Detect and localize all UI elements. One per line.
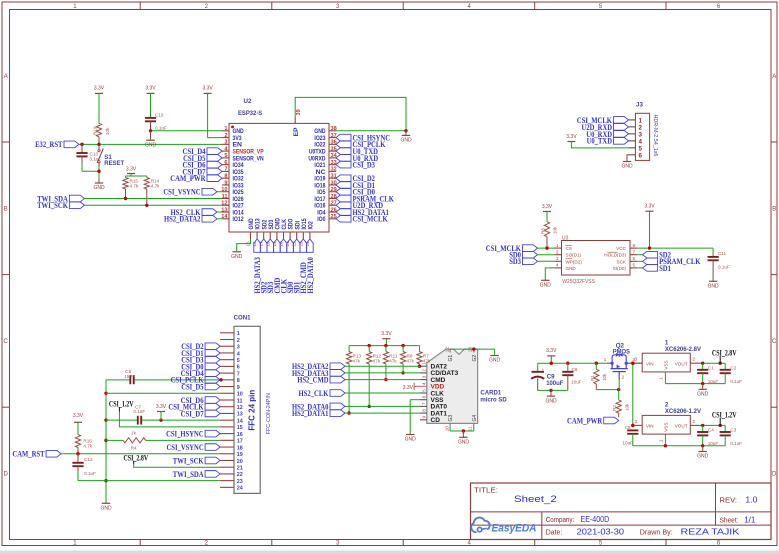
svg-text:3.3V: 3.3V [381, 331, 392, 337]
wire R8 to line [401, 364, 404, 375]
net flag U0_RXD at J3 pin 3 [586, 129, 628, 139]
capacitor C4 10uF [697, 425, 718, 446]
svg-text:CSI_MCLK: CSI_MCLK [353, 214, 388, 224]
wire pin38 GND [336, 129, 408, 132]
svg-text:2: 2 [639, 124, 643, 131]
svg-text:CON1: CON1 [234, 315, 251, 322]
svg-text:5: 5 [224, 153, 227, 159]
wire EN net [79, 143, 222, 146]
title block [471, 483, 772, 540]
svg-text:GND: GND [621, 164, 633, 170]
svg-text:REZA TAJIK: REZA TAJIK [681, 528, 741, 537]
wire HS2_CMD to CARD1 [345, 379, 420, 381]
svg-text:3.3V: 3.3V [403, 385, 414, 391]
svg-text:C: C [772, 339, 777, 345]
svg-text:0.1uF: 0.1uF [718, 265, 730, 270]
svg-text:R1: R1 [590, 375, 595, 381]
capacitor C7 0.1uF [133, 404, 145, 424]
svg-text:G2: G2 [472, 355, 478, 362]
svg-text:IO0: IO0 [317, 216, 325, 223]
wire HS2_CLK to CARD1 [345, 392, 420, 394]
svg-text:TWI_SCK: TWI_SCK [37, 200, 68, 210]
capacitor C2 0.1uF [720, 363, 743, 384]
svg-text:C12: C12 [84, 457, 93, 462]
resistor R13 47k [347, 346, 362, 364]
svg-text:6: 6 [421, 395, 426, 398]
wire HS2_DATA1 to CARD1 [345, 412, 420, 414]
svg-text:1: 1 [224, 126, 227, 132]
svg-text:3: 3 [635, 357, 638, 362]
net flag CSI_D3 [336, 160, 375, 170]
ground right of CARD1 [489, 356, 501, 364]
svg-text:EP: EP [293, 127, 300, 137]
svg-text:47k: 47k [373, 359, 381, 364]
wire pin1 GND [149, 129, 222, 132]
wire C12 to rail and pin23 [78, 480, 220, 482]
svg-text:IO12: IO12 [233, 216, 244, 223]
net flag TWI_SDA [37, 193, 84, 203]
svg-text:CAM_PWR: CAM_PWR [170, 173, 206, 183]
wire S1/C13 to ground [82, 167, 101, 183]
net flag CSI_D0 [336, 187, 375, 197]
svg-text:GND: GND [697, 392, 709, 398]
svg-text:CSI_2.8V: CSI_2.8V [124, 452, 149, 462]
capacitor C10 0.1uF [145, 93, 167, 130]
svg-text:EE-400D: EE-400D [581, 515, 610, 524]
ground below regulator 2 [697, 452, 709, 460]
U2 pins [221, 109, 337, 246]
svg-text:0.1uF: 0.1uF [84, 471, 96, 476]
power flag 3.3V to 3V3 pin [202, 86, 213, 94]
capacitor C8 10uF [562, 363, 582, 390]
wire CSI_1.2V to pin15 [119, 412, 220, 427]
svg-text:4.7k: 4.7k [83, 443, 92, 448]
svg-text:14: 14 [237, 418, 243, 424]
net flag HS2_CLK [299, 388, 346, 398]
net flag HS2_CMD below U2 [298, 239, 308, 294]
net flag CAM_PWR at IO32 [170, 173, 222, 183]
wire G1 G2 to ground [450, 347, 495, 355]
svg-text:VOUT: VOUT [675, 362, 688, 367]
svg-text:12: 12 [237, 405, 243, 411]
capacitor C1 10uF [697, 363, 718, 384]
net flag HS2_DATA0 [292, 401, 345, 411]
bottom grey strip [0, 551, 779, 554]
svg-text:HDR-M-2.54_1x6: HDR-M-2.54_1x6 [652, 115, 658, 157]
svg-text:C5: C5 [625, 425, 631, 430]
svg-text:3.3V: 3.3V [202, 86, 213, 92]
svg-text:1/1: 1/1 [744, 516, 756, 525]
net label CSI_2.8V at CON1 pin21 [124, 452, 149, 464]
net flag SD0 at U3 [509, 250, 537, 260]
svg-text:9: 9 [421, 416, 426, 419]
svg-text:13: 13 [221, 207, 227, 213]
svg-text:CSI_VSYNC: CSI_VSYNC [167, 442, 204, 452]
svg-text:2: 2 [421, 369, 426, 372]
capacitor C6 15PF [124, 369, 135, 384]
net flag PSRAM_CLK at U3 [637, 256, 701, 266]
net flag CAM_RST [12, 449, 61, 459]
svg-text:3.3V: 3.3V [145, 86, 156, 92]
svg-text:C11: C11 [718, 251, 727, 256]
svg-text:4: 4 [237, 351, 240, 357]
net flag HS2_DATA0 below U2 [305, 239, 315, 294]
svg-text:CARD1: CARD1 [480, 389, 501, 396]
svg-text:CAM_RST: CAM_RST [12, 449, 44, 459]
net flag CSI_D5 [183, 153, 222, 163]
svg-text:38: 38 [331, 126, 337, 132]
wire 3.3V to pin2 [208, 93, 222, 137]
transistor Q2 PMOS [604, 342, 636, 380]
svg-text:HS2_DATA0: HS2_DATA0 [305, 257, 315, 294]
net label CSI_1.2V [712, 410, 737, 426]
svg-text:GND: GND [405, 437, 417, 443]
EasyEDA logo [471, 518, 536, 535]
capacitor C11 0.1uF [708, 248, 730, 281]
svg-text:100uF: 100uF [546, 380, 563, 387]
svg-text:32: 32 [331, 167, 337, 173]
net flag CAM_PWR [567, 415, 619, 425]
svg-text:17: 17 [237, 439, 243, 445]
ground below S1 [93, 183, 105, 191]
svg-text:3.3V: 3.3V [644, 204, 655, 210]
wire TWI_SCK to IO27 [84, 204, 222, 207]
net flag E32_RST [35, 139, 79, 149]
power flag 3.3V above C10 [145, 86, 156, 94]
net flag CSI_D6 [183, 160, 223, 170]
svg-text:C8: C8 [572, 367, 578, 372]
svg-text:R4: R4 [131, 445, 137, 450]
wire 3.3V to R6 [546, 212, 548, 222]
svg-text:GND: GND [545, 398, 557, 404]
svg-text:CSI_1.2V: CSI_1.2V [109, 399, 134, 409]
net flag CSI_D5 at CON1 pin 9 [181, 381, 220, 391]
wire 3.3V to R19 [98, 93, 100, 123]
svg-text:3.3V: 3.3V [73, 413, 84, 419]
wire R13 to line [347, 364, 350, 415]
svg-text:FFC 24 pin: FFC 24 pin [247, 390, 256, 431]
svg-text:4: 4 [556, 263, 559, 268]
svg-text:1: 1 [237, 331, 240, 337]
svg-text:18: 18 [237, 445, 243, 451]
capacitor C12 0.1uF [72, 454, 96, 481]
ground below U3 [540, 280, 552, 288]
resistor R4 1k [123, 430, 146, 450]
svg-text:VSS: VSS [663, 360, 668, 369]
svg-text:16: 16 [237, 432, 243, 438]
svg-text:GND: GND [145, 142, 157, 148]
svg-text:13: 13 [237, 412, 243, 418]
net flag CSI_VSYNC at IO25 [163, 187, 222, 197]
net flag CSI_D1 [336, 180, 375, 190]
svg-text:SI(D0): SI(D0) [613, 266, 627, 271]
svg-text:ESP32-S: ESP32-S [238, 110, 262, 117]
wire HS2_DATA3 to CARD1 [345, 372, 420, 374]
wire VSS to ground [410, 400, 420, 435]
svg-text:Date:: Date: [546, 528, 563, 537]
power flag 3.3V at J3 pin5 [566, 134, 577, 142]
svg-text:4: 4 [639, 138, 643, 145]
svg-text:GND: GND [566, 266, 577, 271]
wire HS2_DATA0 to CARD1 [345, 405, 420, 407]
resistor R6 10k [541, 222, 558, 248]
svg-text:C10: C10 [155, 113, 164, 118]
net flag HS2_DATA1 [336, 207, 389, 217]
wire R11 to line [384, 364, 387, 381]
svg-text:0.1uF: 0.1uF [133, 409, 145, 414]
svg-text:3: 3 [639, 131, 643, 138]
svg-text:GND: GND [100, 506, 112, 512]
wire R7 to line [418, 364, 421, 368]
svg-text:PMOS: PMOS [613, 349, 630, 356]
svg-text:11: 11 [237, 398, 243, 404]
connector CON1 FFC 24 pin body [220, 315, 272, 494]
svg-text:1: 1 [639, 118, 643, 125]
svg-text:10: 10 [237, 392, 243, 398]
net flag HS2_DATA1 [292, 408, 345, 418]
svg-text:7: 7 [237, 371, 240, 377]
op-amp U2 ESP32-S module body [229, 98, 329, 232]
regulator U1 XC6206-2.8V [633, 339, 703, 380]
net label CSI_1.2V at CON1 pin15 [109, 399, 134, 412]
svg-text:CSI_2.8V: CSI_2.8V [712, 347, 737, 357]
net flag CSI_HSYNC [336, 132, 390, 142]
svg-text:RESET: RESET [104, 160, 124, 167]
svg-text:FFC-CON-24PIN: FFC-CON-24PIN [266, 393, 272, 434]
svg-text:8: 8 [421, 409, 426, 412]
svg-text:22: 22 [237, 472, 243, 478]
svg-text:0.1uF: 0.1uF [155, 126, 167, 131]
net flag U0_TXD at J3 pin 4 [587, 136, 629, 146]
svg-text:0.1uF: 0.1uF [730, 379, 742, 384]
svg-text:G1: G1 [448, 355, 454, 362]
svg-text:REV:: REV: [720, 496, 738, 505]
wire CSI_2.8V to pin21 [134, 464, 220, 467]
svg-text:19: 19 [237, 452, 243, 458]
svg-text:8: 8 [224, 173, 227, 179]
power flag 3.3V above R15 R14 [126, 167, 147, 177]
resistor R16 4.7k [75, 422, 92, 453]
wire CAM_RST to CON1 pin19 [61, 452, 220, 455]
net flag CSI_D0 at CON1 pin 6 [181, 361, 220, 371]
net flag SD0 below U2 [285, 239, 295, 294]
resistor R8 47k [401, 346, 415, 364]
net flag TWI_SCK at CON1 pin 20 [173, 455, 220, 465]
net flag CSI_MCLK [336, 214, 388, 224]
svg-text:U2: U2 [244, 98, 252, 105]
svg-text:5: 5 [633, 263, 636, 268]
net flag TWI_SDA at CON1 pin 22 [173, 469, 220, 479]
connector J3 HDR-M-2.54_1x6 [629, 102, 659, 161]
svg-text:G4: G4 [472, 415, 478, 422]
net flag HS2_DATA2 at IO12 [164, 214, 222, 224]
net flag CSI_D2 [336, 173, 375, 183]
net flag SD3 below U2 [265, 239, 275, 294]
wire Q2 drain node [631, 362, 642, 426]
svg-text:GND: GND [708, 284, 720, 290]
resistor R7 47k [417, 346, 431, 364]
net flag SD2 at U3 [637, 250, 671, 260]
wire SD3 [538, 260, 555, 262]
svg-text:U0_TXD: U0_TXD [587, 136, 612, 146]
svg-text:R19: R19 [93, 126, 98, 135]
svg-text:D: D [772, 472, 777, 478]
net flag U0_TXD [336, 146, 378, 156]
wire VOUT rail CSI_2.8V [631, 362, 725, 365]
svg-text:Sheet:: Sheet: [720, 516, 739, 525]
capacitor C3 0.1uF [720, 425, 743, 446]
power flag 3.3V above R16 [73, 413, 84, 422]
svg-text:0.1uF: 0.1uF [730, 441, 742, 446]
net flag CSI_PCLK [336, 139, 386, 149]
ground below C11 [708, 281, 720, 289]
wire G3 G4 to ground [450, 423, 474, 437]
svg-text:Company:: Company: [546, 515, 575, 524]
svg-text:SCK: SCK [617, 259, 627, 264]
svg-text:23: 23 [237, 479, 243, 485]
net flag U2D_RXD [336, 200, 383, 210]
svg-text:WP(D2): WP(D2) [566, 259, 583, 264]
resistor R11 47k [383, 346, 398, 364]
wire SD0 [538, 254, 555, 256]
resistor R14 4.7k [144, 176, 160, 205]
svg-text:11: 11 [222, 194, 228, 200]
svg-text:9: 9 [224, 180, 227, 186]
svg-text:2: 2 [224, 133, 227, 139]
svg-text:VSS: VSS [663, 423, 668, 432]
svg-text:47k: 47k [389, 359, 397, 364]
switch S1 RESET [97, 144, 124, 166]
svg-text:IO2: IO2 [308, 221, 315, 229]
svg-text:10k: 10k [625, 403, 630, 411]
svg-text:2: 2 [622, 375, 625, 380]
net flag HS2_DATA3 below U2 [252, 239, 262, 294]
svg-text:6: 6 [639, 152, 643, 159]
wire CSI_PCLK with C6 to ground rail [106, 378, 223, 381]
net label CSI_2.8V [712, 347, 737, 363]
capacitor C13 0.1uF [76, 144, 101, 171]
wire TWI_SDA to IO26 [84, 197, 222, 200]
svg-text:A: A [4, 74, 8, 80]
power flag 3.3V main [546, 348, 557, 363]
wire 3.3V line pin14 with C7 [106, 418, 220, 421]
net flag CSI_D7 [183, 166, 223, 176]
svg-text:G3: G3 [448, 415, 454, 422]
svg-text:GND: GND [231, 254, 243, 260]
svg-text:VIN: VIN [646, 424, 654, 429]
net flag CSI_MCLK at CON1 pin 12 [168, 402, 220, 412]
wire VOUT rail CSI_1.2V [631, 424, 725, 427]
net flag HS2_CMD [297, 375, 345, 385]
net flag CMD below U2 [272, 239, 282, 294]
wire J3 pin6 to ground [627, 155, 629, 162]
svg-text:3: 3 [224, 140, 227, 146]
svg-text:micro SD: micro SD [480, 396, 507, 403]
wire EP pin39 to GND [295, 97, 406, 130]
net flag SD1 below U2 [292, 239, 302, 294]
svg-text:R6: R6 [541, 228, 546, 234]
svg-text:14: 14 [221, 214, 228, 220]
ground below J3 [621, 162, 633, 170]
regulator U2 XC6206-1.2V [633, 402, 703, 443]
svg-text:CSI_D7: CSI_D7 [181, 408, 205, 418]
svg-text:10uF: 10uF [571, 379, 582, 384]
svg-text:1: 1 [659, 377, 664, 380]
ground below C10 [145, 131, 157, 149]
svg-text:1k: 1k [131, 430, 137, 435]
net flag CSI_D7 at CON1 pin 13 [181, 408, 221, 418]
svg-text:2021-03-30: 2021-03-30 [577, 528, 625, 537]
svg-text:2: 2 [693, 419, 696, 424]
ground right of U2 [400, 131, 412, 144]
svg-text:CS: CS [566, 246, 572, 251]
svg-text:15PF: 15PF [124, 374, 135, 379]
svg-text:4: 4 [421, 382, 426, 385]
svg-text:TWI_SDA: TWI_SDA [173, 469, 204, 479]
svg-text:3.3V: 3.3V [542, 204, 553, 210]
svg-text:3: 3 [237, 345, 240, 351]
svg-text:R2: R2 [612, 405, 617, 411]
svg-text:3.3V: 3.3V [566, 134, 577, 140]
svg-text:E32_RST: E32_RST [35, 139, 63, 149]
svg-text:C2: C2 [730, 365, 736, 370]
svg-text:21: 21 [237, 466, 243, 472]
ground below regulator 1 [697, 389, 709, 397]
net flag CSI_PCLK at CON1 pin 8 [171, 375, 221, 385]
net flag CSI_MCLK at U3 CS [486, 243, 538, 253]
svg-text:10: 10 [444, 426, 449, 432]
svg-text:6: 6 [237, 365, 240, 371]
power flag 3.3V above SD pullups [381, 331, 392, 345]
svg-text:CSI_D3: CSI_D3 [353, 160, 375, 170]
svg-text:10uF: 10uF [623, 441, 634, 446]
svg-text:HS2_DATA2: HS2_DATA2 [164, 214, 201, 224]
svg-text:B: B [4, 207, 8, 213]
svg-text:3.3V: 3.3V [156, 404, 167, 410]
net flag U0_RXD [336, 153, 378, 163]
svg-text:U3: U3 [562, 236, 569, 242]
svg-text:5: 5 [639, 145, 643, 152]
wire R12 to line [368, 364, 371, 408]
resistor R15 4.7k [123, 176, 139, 199]
resistor R2 10k [612, 390, 629, 418]
wire pin17 through R4 to rail [106, 439, 220, 441]
svg-text:7: 7 [421, 402, 426, 405]
svg-text:12: 12 [444, 347, 449, 353]
svg-text:HOLD(D3): HOLD(D3) [604, 253, 626, 258]
svg-text:SO(D1): SO(D1) [566, 253, 582, 258]
svg-text:C: C [4, 339, 9, 345]
svg-text:VOUT: VOUT [675, 424, 688, 429]
net flag CSI_D3 at CON1 pin 5 [181, 355, 220, 365]
net flag CLK below U2 [278, 239, 288, 294]
net flag HS2_DATA3 [292, 368, 345, 378]
power flag 3.3V at U3 VCC [644, 204, 655, 212]
wire 3.3V rail to Q2 [538, 362, 607, 365]
resistor R1 10k [590, 363, 607, 389]
svg-text:39: 39 [296, 109, 302, 115]
svg-text:GND: GND [400, 138, 412, 144]
capacitor C9 100uF electrolytic [531, 363, 563, 390]
svg-text:20: 20 [237, 459, 243, 465]
svg-text:15: 15 [237, 425, 243, 431]
svg-text:3.3V: 3.3V [546, 348, 557, 354]
svg-text:7: 7 [224, 167, 227, 173]
net flag CSI_MCLK at J3 pin 1 [577, 115, 629, 125]
svg-text:J3: J3 [636, 102, 643, 109]
net flag CSI_D4 at CON1 pin 7 [181, 368, 221, 378]
connector CARD1 micro SD body [420, 347, 507, 432]
